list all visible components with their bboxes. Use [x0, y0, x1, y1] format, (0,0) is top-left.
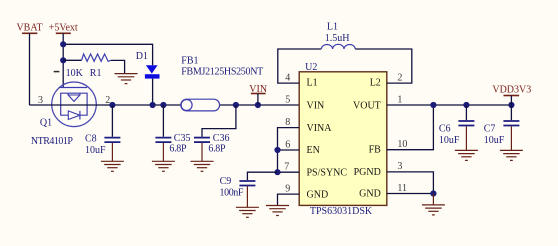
ground under C6 [455, 150, 478, 160]
junction dot C36 elbow [233, 102, 239, 108]
svg-text:L1: L1 [327, 21, 338, 32]
pin 7 wire [278, 171, 300, 173]
svg-text:PS/SYNC: PS/SYNC [307, 167, 348, 178]
diode D1 [136, 51, 160, 105]
svg-text:1.5uH: 1.5uH [325, 33, 350, 44]
svg-text:10uF: 10uF [439, 135, 460, 146]
power port VDD3V3 [492, 85, 531, 106]
svg-text:D1: D1 [136, 51, 148, 62]
pin 1 VOUT rail [387, 104, 512, 106]
junction dot C35 [160, 102, 166, 108]
pin 2 wire from L1 [355, 49, 412, 83]
svg-text:10uF: 10uF [85, 145, 106, 156]
svg-text:VINA: VINA [307, 123, 333, 134]
wire main VIN rail left [29, 104, 180, 106]
pin 11 wire GND [387, 193, 434, 195]
junction dot VIN port [255, 102, 261, 108]
junction dot C7/VDD3V3 [508, 102, 514, 108]
inductor L1 [321, 21, 355, 49]
svg-text:10uF: 10uF [484, 135, 505, 146]
svg-text:GND: GND [307, 189, 329, 200]
svg-text:NTR4101P: NTR4101P [31, 136, 74, 147]
svg-text:FB1: FB1 [181, 55, 198, 66]
pin 3 wire PGND [387, 172, 434, 194]
junction dot D1 [150, 102, 156, 108]
svg-text:3: 3 [397, 161, 402, 172]
svg-text:VIN: VIN [307, 101, 325, 112]
pin 8 wire / VINA-EN-PS bus [278, 128, 300, 173]
pin 9 wire [278, 194, 300, 205]
ground under C7 [500, 150, 523, 160]
svg-text:U2: U2 [305, 62, 317, 73]
capacitor C7 [484, 105, 520, 150]
pin 6 wire [278, 149, 300, 151]
ground at pin 9 [266, 206, 289, 216]
svg-text:1: 1 [397, 95, 402, 106]
svg-text:100nF: 100nF [220, 188, 244, 199]
junction dot pin 6 [274, 147, 280, 153]
resistor R1 [63, 54, 124, 79]
svg-text:9: 9 [285, 183, 290, 194]
junction dot at +5Vext/D1 wire [60, 41, 66, 47]
capacitor C36 [194, 105, 236, 161]
capacitor C35 [155, 105, 190, 161]
svg-text:2: 2 [397, 73, 402, 84]
svg-text:Q1: Q1 [40, 117, 52, 128]
svg-text:VBAT: VBAT [16, 23, 42, 34]
junction dot FB/VOUT [430, 102, 436, 108]
svg-text:8: 8 [285, 117, 290, 128]
junction dot C8 [109, 102, 115, 108]
svg-text:TPS63031DSK: TPS63031DSK [310, 206, 373, 217]
svg-text:C9: C9 [220, 176, 232, 187]
svg-text:11: 11 [397, 183, 407, 194]
ferrite bead FB1 [181, 55, 263, 111]
capacitor C8 [85, 105, 120, 161]
svg-text:FBMJ2125HS250NT: FBMJ2125HS250NT [181, 66, 263, 77]
ground under C35 [152, 161, 175, 171]
svg-text:6.8P: 6.8P [208, 144, 226, 155]
svg-text:5: 5 [285, 95, 290, 106]
wire +5Vext to D1 top [63, 44, 152, 65]
ground at pin 11 [432, 194, 434, 205]
ground under R1 [115, 74, 138, 84]
ground under C36 [191, 161, 214, 171]
svg-text:C36: C36 [213, 133, 230, 144]
svg-text:10K: 10K [66, 68, 84, 79]
svg-text:6: 6 [285, 139, 290, 150]
power port +5Vext [49, 23, 78, 88]
svg-text:C35: C35 [174, 133, 191, 144]
svg-text:C7: C7 [484, 124, 496, 135]
ground under C8 [101, 161, 124, 171]
wire main VIN rail right of bead [220, 104, 299, 106]
svg-text:L2: L2 [370, 78, 381, 89]
svg-text:+5Vext: +5Vext [49, 23, 78, 34]
transistor Q1 [52, 82, 97, 127]
svg-text:C8: C8 [85, 134, 97, 145]
svg-text:4: 4 [285, 72, 290, 83]
ground under C9 [236, 207, 259, 217]
capacitor C6 [439, 105, 475, 150]
power port VIN [249, 84, 267, 105]
Q1 pin number 1 (rotated dash) [54, 71, 60, 73]
junction dot C6 [463, 102, 469, 108]
svg-text:VOUT: VOUT [353, 101, 381, 112]
junction dot pin 7 [274, 169, 280, 175]
svg-text:VDD3V3: VDD3V3 [492, 85, 531, 96]
power port VBAT [16, 23, 42, 106]
junction dot at gate/resistor node [60, 57, 66, 63]
junction dot pin 11 [430, 190, 436, 196]
svg-text:L1: L1 [307, 78, 318, 89]
IC U2 body [299, 72, 387, 206]
pin 10 wire FB to VOUT [387, 105, 434, 150]
svg-text:PGND: PGND [354, 167, 381, 178]
svg-text:EN: EN [307, 145, 320, 156]
svg-text:FB: FB [369, 145, 382, 156]
svg-text:C6: C6 [439, 124, 451, 135]
svg-text:10: 10 [397, 139, 407, 150]
capacitor C9 [220, 172, 278, 207]
svg-text:7: 7 [284, 162, 289, 173]
svg-text:R1: R1 [90, 68, 102, 79]
svg-text:6.8P: 6.8P [169, 144, 187, 155]
svg-text:GND: GND [359, 189, 381, 200]
pin 4 wire to L1 [278, 49, 322, 83]
